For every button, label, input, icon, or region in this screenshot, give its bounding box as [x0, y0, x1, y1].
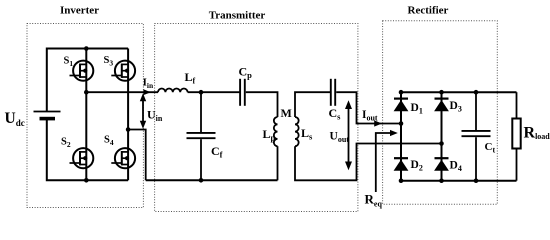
- wire: rectifier bottom rail: [401, 180, 517, 182]
- transistor S1: [70, 61, 94, 81]
- capacitor Ct: [462, 92, 491, 181]
- node: Cf top: [199, 90, 204, 95]
- transistor S2: [70, 148, 94, 168]
- svg-text:Inverter: Inverter: [60, 5, 99, 17]
- node: S3-S4 junction: [126, 127, 131, 132]
- capacitor Cf: [187, 92, 216, 180]
- voltage arrow Uout: [345, 100, 352, 170]
- wire: inverter dc-link left side: [47, 49, 128, 181]
- node: bottom rail left: [399, 178, 404, 183]
- coil Ls: [295, 117, 299, 146]
- diode D3: [434, 99, 449, 112]
- wire: Ls bottom to output: [295, 144, 442, 181]
- diode D2: [394, 158, 409, 171]
- wire: Lf to Cp: [188, 91, 240, 93]
- battery Udc: [34, 112, 61, 119]
- wire: rectifier right leg: [441, 92, 443, 181]
- wire: right bridge leg: [127, 49, 129, 181]
- wire: rectifier left leg: [400, 92, 402, 181]
- arrow Req: [376, 130, 398, 192]
- node: bottom rail right leg: [439, 178, 444, 183]
- resistor Rload: [512, 92, 520, 181]
- node: top rail left: [399, 90, 404, 95]
- wire: left bridge leg: [85, 49, 87, 181]
- svg-text:Rectifier: Rectifier: [408, 5, 449, 17]
- transistor S3: [111, 61, 135, 81]
- inductor Lf: [158, 88, 188, 92]
- node: top rail Ct: [474, 90, 479, 95]
- transistor S4: [111, 148, 135, 168]
- node: Cf bottom: [199, 178, 204, 183]
- voltage arrow Uin: [140, 93, 146, 129]
- wire: Cs to Iout wire: [336, 92, 401, 123]
- current arrow Iout: [374, 120, 382, 126]
- wire: Cp to primary coil: [246, 92, 278, 117]
- node: rectifier left input: [399, 121, 404, 126]
- node: top of left leg: [84, 46, 89, 51]
- node: rectifier right input: [439, 141, 444, 146]
- wire: Lp bottom: [277, 146, 279, 180]
- diode D4: [434, 158, 449, 171]
- wire: transmitter bottom return: [146, 179, 278, 181]
- section box: Inverter: [27, 24, 143, 208]
- node: top rail right leg: [439, 90, 444, 95]
- node: bottom of left leg: [84, 178, 89, 183]
- wire: rectifier top rail: [401, 91, 517, 93]
- section box: Transmitter: [155, 24, 358, 212]
- wire: inverter output B: [128, 130, 146, 181]
- wire: inverter output A to Lf: [86, 91, 158, 93]
- current arrow Iin: [143, 89, 150, 95]
- wire: Ls top to Cs: [295, 92, 330, 117]
- node: S1-S2 junction: [84, 90, 89, 95]
- capacitor Cp: [240, 79, 245, 106]
- capacitor Cs: [331, 79, 335, 106]
- section box: Rectifier: [383, 21, 498, 205]
- coil Lp: [274, 117, 278, 146]
- svg-text:M: M: [281, 106, 292, 120]
- svg-text:Transmitter: Transmitter: [209, 9, 266, 21]
- diode D1: [394, 99, 409, 112]
- node: bottom rail Ct: [474, 178, 479, 183]
